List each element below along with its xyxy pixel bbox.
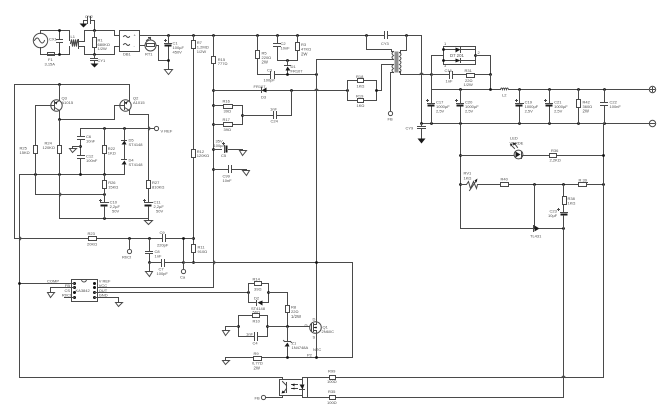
svg-text:R36: R36 xyxy=(551,148,559,153)
svg-text:2,2KΩ: 2,2KΩ xyxy=(550,157,561,162)
capacitor CY3 xyxy=(365,32,421,47)
terminal output plus xyxy=(649,86,655,92)
svg-text:1KΩ: 1KΩ xyxy=(464,175,472,180)
capacitor C22 xyxy=(601,90,622,124)
svg-text:100pF: 100pF xyxy=(264,78,276,83)
resistor R36 xyxy=(550,148,604,163)
svg-text:810KΩ: 810KΩ xyxy=(152,185,164,190)
svg-text:CX1: CX1 xyxy=(49,37,58,42)
svg-text:TL431: TL431 xyxy=(530,234,542,239)
capacitor C10 xyxy=(100,200,121,219)
AC source G1 xyxy=(33,31,47,53)
svg-text:10µF: 10µF xyxy=(548,213,558,218)
resistor R10 xyxy=(239,309,268,336)
wire secondary to snubber xyxy=(405,74,432,76)
transformer T1 xyxy=(367,36,407,75)
svg-text:R31: R31 xyxy=(465,68,473,73)
wire drain sense xyxy=(184,262,353,264)
resistor R42 xyxy=(577,90,593,124)
wire GND pin to ground xyxy=(95,298,119,303)
capacitor C12 xyxy=(78,154,98,175)
diode D4 ST4148 xyxy=(122,158,144,175)
svg-text:10nF: 10nF xyxy=(86,138,96,143)
capacitor C99 xyxy=(212,166,246,183)
svg-text:R14: R14 xyxy=(253,277,261,282)
capacitor C5 xyxy=(212,139,242,158)
svg-text:2,5V: 2,5V xyxy=(465,108,474,113)
svg-text:15KΩ: 15KΩ xyxy=(108,185,118,190)
svg-text:1KΩ: 1KΩ xyxy=(357,84,365,89)
ground chassis at CY2 xyxy=(80,24,88,28)
resistor R19 xyxy=(348,89,378,108)
svg-text:2N60C: 2N60C xyxy=(322,329,335,334)
ground at C99 xyxy=(243,171,250,176)
svg-text:100nF: 100nF xyxy=(610,104,622,109)
wire snubber rail xyxy=(258,74,317,76)
transistor Q1 2N60C xyxy=(305,317,335,340)
svg-text:2,5V: 2,5V xyxy=(436,108,445,113)
svg-text:D: D xyxy=(313,317,316,322)
svg-text:120KΩ: 120KΩ xyxy=(197,153,209,158)
svg-text:L2: L2 xyxy=(502,93,507,98)
capacitor C3 xyxy=(264,68,276,83)
svg-text:100Ω: 100Ω xyxy=(327,400,337,405)
svg-text:FB: FB xyxy=(388,117,393,122)
resistor R7 xyxy=(192,34,209,54)
wire left rail 218 xyxy=(60,219,149,221)
svg-text:P2: P2 xyxy=(307,352,313,357)
wire R7 to R12 xyxy=(193,49,195,150)
resistor R27 xyxy=(147,180,165,202)
resistor R5 xyxy=(256,34,272,74)
resistor R31 xyxy=(464,68,492,87)
svg-text:50V: 50V xyxy=(156,209,163,214)
wire left column down to R23 xyxy=(15,85,89,239)
wire Rt/Ct pin stub xyxy=(65,297,75,299)
svg-text:1nF: 1nF xyxy=(446,79,453,84)
wire R15 column / VCC rail xyxy=(95,65,214,288)
wire gate node xyxy=(237,325,240,328)
svg-text:ST4148: ST4148 xyxy=(129,162,144,167)
svg-text:D2: D2 xyxy=(254,296,260,301)
svg-text:39Ω: 39Ω xyxy=(254,286,261,291)
resistor R25 xyxy=(20,106,38,195)
ground chassis at CY1 xyxy=(91,64,99,68)
resistor R11 xyxy=(192,237,208,264)
svg-text:FR107: FR107 xyxy=(291,69,304,74)
wire left rail 194 xyxy=(36,194,105,196)
capacitor C9 xyxy=(157,230,169,248)
wire AC top xyxy=(41,30,70,32)
capacitor CY1 xyxy=(91,53,107,63)
svg-text:R9: R9 xyxy=(254,351,260,356)
resistor R8 xyxy=(269,293,302,327)
resistor R18 xyxy=(346,74,376,101)
svg-text:1/2W: 1/2W xyxy=(291,314,302,319)
svg-text:D7 201: D7 201 xyxy=(450,53,464,58)
resistor R38 xyxy=(563,185,576,212)
svg-text:2W: 2W xyxy=(254,365,261,370)
resistor R12 xyxy=(192,149,210,158)
svg-text:3,15A: 3,15A xyxy=(45,62,56,67)
wire aux winding to R18R19 xyxy=(377,65,392,91)
wire plus rail xyxy=(432,89,650,91)
optocoupler U2 xyxy=(280,378,308,398)
capacitor C16 xyxy=(432,68,467,84)
svg-text:2,5V: 2,5V xyxy=(525,108,534,113)
svg-text:100µF: 100µF xyxy=(214,143,226,148)
svg-text:450V: 450V xyxy=(173,50,183,55)
resistor R3 xyxy=(296,34,312,60)
terminal FB aux xyxy=(388,111,393,121)
svg-text:56Ω: 56Ω xyxy=(253,309,260,314)
svg-text:FB: FB xyxy=(255,396,260,401)
svg-text:1nF: 1nF xyxy=(270,107,277,112)
wire feedback left column xyxy=(461,124,533,229)
dual diode D7 xyxy=(430,41,490,76)
ground at C6 C12 xyxy=(70,149,77,153)
resistor R99 xyxy=(307,368,604,384)
svg-text:20KΩ: 20KΩ xyxy=(87,241,97,246)
capacitor C8 xyxy=(146,239,162,263)
wire aux bottom to FB terminal xyxy=(391,73,392,112)
svg-text:NTC: NTC xyxy=(313,347,321,352)
capacitor C23 xyxy=(548,209,568,229)
svg-text:R17: R17 xyxy=(223,117,231,122)
svg-text:777Ω: 777Ω xyxy=(218,61,228,66)
resistor R9 xyxy=(223,351,353,371)
resistor R24 xyxy=(43,120,62,219)
thermistor RT1 xyxy=(140,38,169,61)
wire R12 to R11 xyxy=(193,158,195,245)
wire FB pin to ground xyxy=(51,288,75,293)
svg-text:1/2W: 1/2W xyxy=(197,49,207,54)
svg-text:1KΩ: 1KΩ xyxy=(568,201,576,206)
node C24 drop xyxy=(290,89,293,92)
svg-text:1nF: 1nF xyxy=(246,332,253,337)
svg-text:220pF: 220pF xyxy=(157,243,169,248)
ground at C5 xyxy=(240,151,247,156)
resistor R17 xyxy=(212,117,242,132)
svg-text:Rt/Ct: Rt/Ct xyxy=(122,255,132,260)
wire left rail 174 xyxy=(20,174,125,176)
wire CY3 col to minus rail xyxy=(421,36,423,124)
wire Q3 collector to Q2 base xyxy=(60,106,115,120)
svg-text:R40: R40 xyxy=(501,176,509,181)
capacitor C19 xyxy=(516,90,539,124)
capacitor C1 xyxy=(165,34,185,69)
choke L1 xyxy=(70,31,120,55)
svg-text:A1015: A1015 xyxy=(62,100,74,105)
svg-text:ST4148: ST4148 xyxy=(129,142,144,147)
svg-text:100nF: 100nF xyxy=(86,158,98,163)
svg-text:FR107: FR107 xyxy=(254,84,267,89)
fuse F1 xyxy=(45,53,57,67)
capacitor CY9 xyxy=(406,124,426,139)
diode D1 FR107 xyxy=(285,59,304,74)
svg-text:R19: R19 xyxy=(356,94,364,99)
svg-text:R35: R35 xyxy=(328,389,336,394)
resistor R15 xyxy=(212,34,228,66)
svg-text:C4: C4 xyxy=(253,341,259,346)
svg-text:R 39: R 39 xyxy=(579,178,588,183)
resistor R22 xyxy=(103,129,116,175)
resistor R23 xyxy=(87,231,97,246)
transistor Q3 A1015 xyxy=(36,85,74,112)
svg-text:100pF: 100pF xyxy=(157,271,169,276)
svg-text:DB1: DB1 xyxy=(123,52,132,57)
svg-text:10nF: 10nF xyxy=(223,178,233,183)
resistor R35 xyxy=(307,389,564,405)
wire COMP column to opto xyxy=(20,175,283,380)
svg-text:100Ω: 100Ω xyxy=(327,379,337,384)
svg-text:CY9: CY9 xyxy=(406,126,415,131)
svg-text:39Ω: 39Ω xyxy=(224,109,231,114)
svg-text:1/2W: 1/2W xyxy=(464,82,474,87)
wire HV bus xyxy=(140,35,385,37)
svg-text:Rt/Ct: Rt/Ct xyxy=(62,292,72,297)
svg-text:C24: C24 xyxy=(271,119,279,124)
svg-text:10nF: 10nF xyxy=(281,45,291,50)
svg-text:910Ω: 910Ω xyxy=(198,249,208,254)
diode D5 ST4148 xyxy=(122,129,144,160)
svg-text:50V: 50V xyxy=(112,209,119,214)
svg-text:R23: R23 xyxy=(88,231,96,236)
zener Z1 1N4748A xyxy=(284,327,309,358)
capacitor C21 xyxy=(545,90,569,124)
wire Q3 Q2 emitter rail xyxy=(15,84,130,86)
svg-text:C16: C16 xyxy=(445,68,453,73)
wire COMP pin xyxy=(20,283,75,285)
capacitor C4 xyxy=(239,332,268,346)
svg-text:COMP: COMP xyxy=(47,279,59,284)
svg-text:1/2W: 1/2W xyxy=(98,46,108,51)
diode D3 FR107 xyxy=(212,84,347,100)
terminal Rt/Ct xyxy=(122,239,132,260)
capacitor CX1 xyxy=(49,31,63,55)
svg-text:G: G xyxy=(305,323,308,328)
svg-text:RT1: RT1 xyxy=(145,52,153,57)
svg-text:15KΩ: 15KΩ xyxy=(20,150,30,155)
wire OUT pin to driver xyxy=(95,292,249,294)
wire D7 col to plus rail xyxy=(432,75,491,90)
wire minus rail xyxy=(422,123,650,125)
svg-text:2W: 2W xyxy=(262,60,269,65)
wire left block top rail xyxy=(81,128,155,130)
wire right column to R99 xyxy=(603,124,605,378)
resistor R26 xyxy=(103,175,119,203)
capacitor C7 xyxy=(150,260,184,276)
svg-text:Ca: Ca xyxy=(180,275,186,280)
diode D2 ST4148 xyxy=(249,291,270,311)
wire Q2 collector to R27 xyxy=(130,111,149,181)
capacitor C2 xyxy=(274,34,291,60)
svg-text:L1: L1 xyxy=(71,34,76,39)
svg-text:2W: 2W xyxy=(583,109,590,114)
svg-text:1KΩ: 1KΩ xyxy=(108,150,116,155)
svg-text:39Ω: 39Ω xyxy=(224,127,231,132)
svg-text:GND: GND xyxy=(99,292,108,297)
ground chassis at CY9 xyxy=(418,139,426,144)
inductor L2 xyxy=(501,88,509,98)
svg-text:C5: C5 xyxy=(221,153,227,158)
svg-text:R99: R99 xyxy=(328,368,336,373)
node CX1 bottom xyxy=(58,53,61,56)
bridge rectifier DB1 xyxy=(120,31,140,57)
svg-text:120KΩ: 120KΩ xyxy=(43,145,55,150)
terminal output minus xyxy=(649,120,655,126)
resistor R16 xyxy=(212,99,242,125)
svg-text:V REF: V REF xyxy=(161,129,173,134)
svg-text:R18: R18 xyxy=(356,74,364,79)
capacitor C11 xyxy=(144,200,165,219)
transistor Q2 A1015 xyxy=(115,85,146,112)
wire AC bottom xyxy=(41,53,70,55)
IC U1 KA3842 xyxy=(47,279,111,302)
svg-text:1KΩ: 1KΩ xyxy=(357,103,365,108)
wire Q1 source xyxy=(316,334,318,358)
svg-text:C3: C3 xyxy=(267,68,273,73)
svg-text:R10: R10 xyxy=(253,319,261,324)
node CX1 top xyxy=(58,29,61,32)
svg-text:R16: R16 xyxy=(223,99,231,104)
LED verde xyxy=(461,135,550,159)
ground under C8 xyxy=(148,261,151,264)
svg-text:C9: C9 xyxy=(160,230,166,235)
svg-text:CY2: CY2 xyxy=(85,14,94,19)
svg-text:A1015: A1015 xyxy=(133,100,145,105)
svg-text:D3: D3 xyxy=(261,95,267,100)
ground at C1 xyxy=(165,70,173,75)
wire C2-R3 bottom xyxy=(278,60,298,62)
svg-text:CY1: CY1 xyxy=(98,58,107,63)
terminal V REF xyxy=(154,126,172,133)
svg-text:KA3842: KA3842 xyxy=(76,288,91,293)
capacitor C17 xyxy=(427,90,451,124)
svg-text:2,5V: 2,5V xyxy=(554,108,563,113)
resistor R39 xyxy=(579,178,588,187)
wire TL431 ref column xyxy=(534,185,536,229)
wire C6 C12 mid to ground xyxy=(79,145,82,148)
svg-text:1nF: 1nF xyxy=(155,253,162,258)
capacitor C24 xyxy=(241,91,291,124)
capacitor C20 xyxy=(456,90,480,124)
svg-text:CY3: CY3 xyxy=(381,41,390,46)
potentiometer RV1 xyxy=(461,170,501,190)
svg-text:2W: 2W xyxy=(301,51,308,56)
TL431 xyxy=(530,226,564,239)
terminal FB opto xyxy=(255,395,283,400)
svg-text:S: S xyxy=(313,335,316,340)
wire TL431 cathode to R35 xyxy=(563,229,565,398)
ground at C11 xyxy=(145,221,153,225)
resistor R14 xyxy=(247,277,268,303)
svg-text:VERDE: VERDE xyxy=(510,140,524,145)
wire primary bottom to drain column xyxy=(317,60,392,322)
svg-text:1N4748A: 1N4748A xyxy=(292,345,309,350)
capacitor C6 xyxy=(78,129,96,156)
resistor R40 xyxy=(501,176,604,186)
terminal Ca xyxy=(180,237,186,279)
resistor R1 xyxy=(93,29,110,54)
wire R23 to R11 xyxy=(97,238,194,240)
capacitor CY2 xyxy=(84,14,95,31)
